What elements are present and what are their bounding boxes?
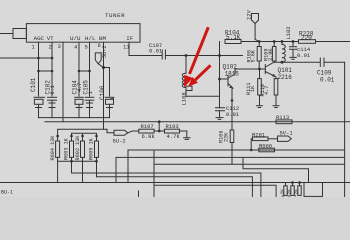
- svg-text:0.01: 0.01: [149, 48, 163, 55]
- svg-text:R107: R107: [141, 123, 154, 130]
- svg-text:0.1: 0.1: [50, 85, 56, 94]
- resistor R003: [70, 141, 74, 161]
- resistor R113: [276, 120, 292, 124]
- svg-text:4.7: 4.7: [264, 86, 270, 95]
- svg-text:5.1K: 5.1K: [226, 34, 241, 41]
- svg-text:H/L: H/L: [85, 35, 96, 42]
- svg-text:6: 6: [98, 42, 101, 49]
- resistor R066: [259, 148, 275, 152]
- bus line y176.8: [97, 177, 253, 197]
- svg-text:IF: IF: [126, 35, 133, 42]
- svg-text:1: 1: [88, 91, 94, 94]
- resistor R106: [230, 130, 234, 164]
- svg-text:R066: R066: [259, 142, 272, 149]
- transistor Q102: [220, 69, 236, 88]
- svg-text:VT: VT: [47, 35, 54, 42]
- jumper flag 5U-2 on pin 6: [95, 53, 103, 68]
- jumper flag 5V-1: [278, 136, 292, 141]
- wire supply bus y41.5: [259, 41, 350, 43]
- tuner block U-TUNER: [26, 24, 140, 43]
- svg-text:5U-2: 5U-2: [102, 46, 108, 58]
- pin 1 wire: [38, 42, 40, 96]
- ground R111: [257, 106, 263, 108]
- resistor RN2: [291, 183, 294, 196]
- resistor R103: [165, 129, 187, 133]
- pin 2 wire: [51, 42, 53, 96]
- resistor R005: [95, 141, 99, 161]
- capacitor C104: [75, 97, 84, 117]
- wire R003 drop: [71, 161, 73, 173]
- resistor RN1: [284, 183, 287, 196]
- svg-text:Q101: Q101: [278, 67, 293, 74]
- svg-text:R004 13K: R004 13K: [50, 135, 56, 161]
- svg-text:5: 5: [85, 44, 88, 51]
- wire staircase R004 top to jumper: [58, 129, 114, 141]
- resistor R109: [272, 42, 276, 63]
- svg-text:0.01: 0.01: [320, 77, 335, 84]
- svg-text:2: 2: [49, 44, 52, 51]
- bus line y150: [128, 150, 345, 183]
- resistor R281: [251, 137, 277, 150]
- svg-text:0.01: 0.01: [297, 52, 311, 59]
- svg-text:5.6K: 5.6K: [251, 49, 257, 62]
- svg-text:R281: R281: [252, 131, 266, 138]
- bus line y121.8: [45, 121, 350, 123]
- wire resistor bank bottom rail: [58, 160, 97, 162]
- capacitor C107: [162, 50, 165, 59]
- svg-text:0.0.2: 0.0.2: [282, 194, 297, 197]
- capacitor C112: [216, 108, 225, 118]
- svg-text:12V: 12V: [246, 9, 253, 20]
- svg-text:1: 1: [110, 97, 116, 100]
- inductor L108: [182, 56, 192, 97]
- svg-text:U/U: U/U: [70, 35, 81, 42]
- svg-text:L102: L102: [285, 26, 292, 39]
- wire Q102 collector to Q101 base: [235, 68, 260, 70]
- resistor R004: [56, 141, 60, 161]
- svg-text:C101: C101: [30, 77, 37, 92]
- svg-text:0.01: 0.01: [226, 111, 240, 118]
- svg-text:5U-2: 5U-2: [113, 138, 126, 145]
- bus line y164.2: [154, 150, 345, 197]
- capacitor C114: [290, 42, 297, 54]
- wire vertical node IF/base: [219, 42, 221, 108]
- pin 4 wire: [78, 42, 80, 96]
- tuner input tab: [13, 29, 26, 39]
- svg-text:220: 220: [301, 34, 312, 41]
- resistor RN3: [298, 183, 301, 196]
- ground C114: [290, 54, 296, 59]
- svg-text:BM: BM: [99, 35, 106, 42]
- svg-text:2216: 2216: [278, 74, 293, 81]
- svg-text:C106: C106: [99, 85, 106, 100]
- wire Q102 emitter / R106 column: [231, 88, 233, 130]
- wire right edge drop: [344, 62, 346, 197]
- power flag 12V: [252, 14, 260, 42]
- capacitor C101: [34, 97, 45, 117]
- ground C112: [216, 118, 223, 120]
- inductor L102: [282, 42, 285, 63]
- svg-text:R005 1K: R005 1K: [89, 137, 95, 160]
- svg-text:C109: C109: [317, 70, 332, 77]
- resistor R108: [257, 42, 261, 70]
- svg-text:AGC: AGC: [34, 35, 45, 42]
- wire R004 drop: [57, 161, 59, 182]
- pin 3 wire: [62, 42, 64, 122]
- svg-text:L108: L108: [181, 92, 188, 105]
- svg-text:R003 1K: R003 1K: [64, 137, 70, 160]
- ground R103: [184, 131, 190, 139]
- pin 5 wire: [89, 42, 91, 96]
- wire IF line: [129, 55, 243, 57]
- svg-text:TUNER: TUNER: [105, 12, 125, 19]
- transistor Q101: [260, 62, 277, 77]
- red annotation arrow A: [184, 27, 208, 87]
- wire node AGC-VT y71: [39, 70, 53, 72]
- wire collector net y62.2: [275, 61, 345, 63]
- resistor R228: [299, 40, 316, 44]
- pin numbers: [32, 42, 131, 50]
- wire L108 to C112 node: [186, 95, 220, 97]
- resistor R110: [274, 77, 278, 105]
- wire input to left edge: [0, 33, 13, 35]
- svg-text:R103: R103: [166, 123, 179, 130]
- resistor R107: [139, 129, 165, 133]
- svg-text:3.9K: 3.9K: [268, 48, 274, 61]
- wire R002 drop: [82, 161, 84, 182]
- svg-text:Q102: Q102: [223, 64, 238, 71]
- capacitor C109: [320, 58, 324, 66]
- wire jumper to R107: [128, 131, 139, 133]
- resistor R111: [258, 69, 262, 105]
- ground R110: [273, 106, 279, 108]
- wire R005 drop: [96, 161, 98, 177]
- resistor R002: [81, 141, 85, 161]
- wire node pin4-pin5 y71: [79, 70, 90, 72]
- svg-text:1K: 1K: [250, 85, 256, 92]
- capacitor C102: [48, 97, 57, 117]
- svg-text:6.8k: 6.8k: [142, 133, 156, 140]
- pin 6 wire: [104, 42, 110, 129]
- jumper flag 5U-2: [114, 130, 128, 135]
- wire mid tap: [158, 122, 160, 131]
- wire AGC to left edge: [0, 57, 52, 59]
- svg-text:4.7k: 4.7k: [167, 133, 181, 140]
- svg-text:22K: 22K: [224, 132, 230, 142]
- resistor network box: [304, 183, 323, 197]
- bus line y173: [72, 173, 261, 197]
- bus line y168.7: [243, 157, 309, 182]
- svg-text:11: 11: [123, 44, 130, 51]
- svg-text:3: 3: [58, 43, 61, 50]
- bottom bus y182.5: [0, 182, 350, 184]
- svg-text:1815: 1815: [225, 71, 240, 78]
- red annotation arrow B: [188, 65, 211, 87]
- svg-text:5V-1: 5V-1: [280, 130, 294, 137]
- bus line y157.4: [116, 157, 345, 182]
- svg-text:R113: R113: [276, 114, 289, 121]
- resistor R104: [225, 40, 259, 44]
- svg-text:R002 13K: R002 13K: [75, 135, 81, 161]
- bottom block frame: [139, 185, 277, 197]
- capacitor C105: [85, 97, 94, 117]
- svg-text:BU-1: BU-1: [1, 190, 13, 196]
- pin 11 IF wire: [128, 42, 130, 55]
- capacitor C106: [105, 97, 114, 117]
- ground bus upper: [39, 117, 110, 119]
- wire staircase R003 R002 R005 tops: [72, 133, 97, 141]
